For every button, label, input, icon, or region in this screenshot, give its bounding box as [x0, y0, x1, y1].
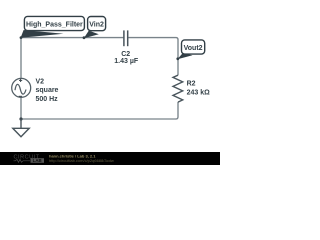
wire V2 bottom lead	[20, 97, 22, 119]
svg-text:Vout2: Vout2	[184, 45, 203, 52]
label C2 value	[114, 51, 139, 65]
wire top horizontal left of C2	[21, 37, 123, 39]
svg-text:1.43 µF: 1.43 µF	[114, 58, 139, 65]
net label Vin2	[83, 17, 106, 40]
svg-text:R2: R2	[187, 81, 196, 88]
svg-text:V2: V2	[36, 78, 45, 85]
svg-text:243 kΩ: 243 kΩ	[187, 89, 211, 96]
wire right vertical lower	[176, 102, 178, 119]
svg-text:500 Hz: 500 Hz	[36, 96, 59, 103]
svg-text:LAB: LAB	[33, 158, 42, 163]
watermark logo CIRCUITLAB	[14, 155, 45, 163]
V2 plus sign	[19, 79, 23, 97]
voltage source V2	[12, 78, 31, 97]
wire bottom horizontal	[21, 118, 176, 120]
svg-text:http://circuitlab.com/c/p2q668: http://circuitlab.com/c/p2q6688/3cdw	[49, 158, 114, 163]
wire top horizontal right of C2	[128, 38, 178, 40]
label V2 value	[36, 78, 59, 103]
resistor R2	[173, 75, 183, 102]
wire left vertical	[20, 38, 22, 79]
capacitor C2	[124, 30, 128, 46]
label R2 value	[187, 81, 211, 97]
wire right vertical upper	[177, 40, 179, 76]
svg-text:Vin2: Vin2	[89, 21, 104, 28]
junction dot	[19, 117, 22, 120]
net label Vout2	[176, 40, 204, 60]
watermark bar	[0, 152, 220, 165]
svg-text:C2: C2	[121, 51, 130, 58]
net label High_Pass_Filter	[20, 16, 85, 39]
svg-text:High_Pass_Filter: High_Pass_Filter	[26, 21, 83, 28]
ground	[13, 119, 29, 137]
svg-text:square: square	[36, 87, 59, 94]
